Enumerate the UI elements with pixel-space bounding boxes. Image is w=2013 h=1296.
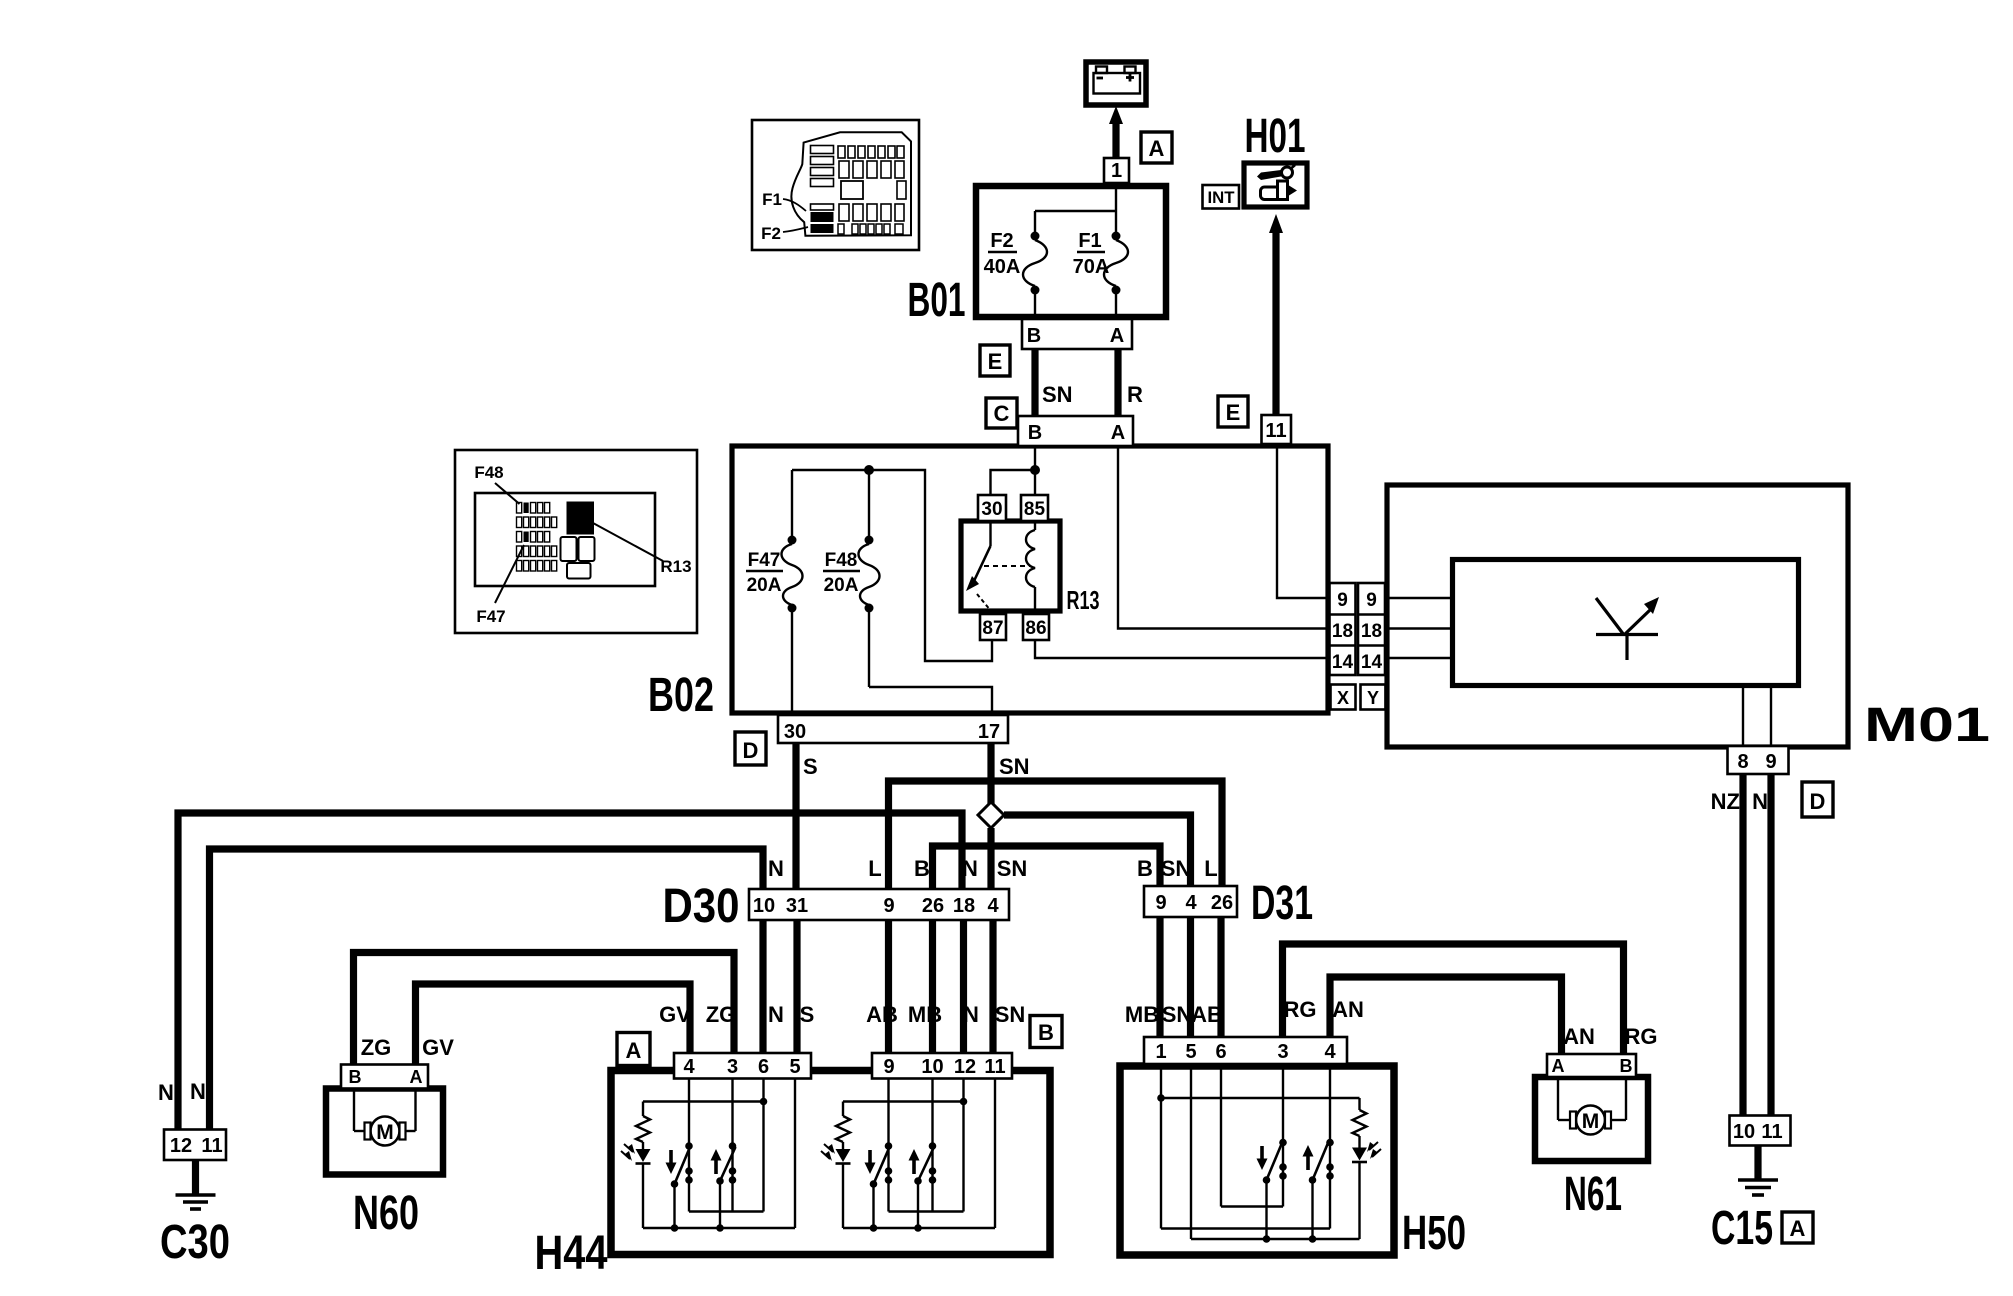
connector label E box left xyxy=(980,345,1010,376)
wire SN branch diamond to D31 pin 4 xyxy=(1004,815,1191,886)
svg-text:4: 4 xyxy=(1185,892,1197,914)
wire GV N60 A to H44 pin 4 xyxy=(416,984,691,1064)
connector label D box xyxy=(735,732,766,765)
H50 switch arm 2 with up arrow xyxy=(1303,1143,1329,1239)
svg-text:14: 14 xyxy=(1361,652,1383,673)
svg-text:F2: F2 xyxy=(990,230,1013,252)
connector strip H50 pins 1 5 6 3 4 xyxy=(1144,1037,1347,1064)
svg-text:C30: C30 xyxy=(160,1216,230,1269)
svg-text:GV: GV xyxy=(659,1002,691,1027)
wiper symbol xyxy=(1596,597,1659,660)
fusebox outline pictogram xyxy=(791,132,911,236)
svg-text:10: 10 xyxy=(753,895,775,917)
svg-text:SN: SN xyxy=(1042,382,1073,407)
connector label X box xyxy=(1331,685,1356,710)
wire SN D30 pin 4 to H44 pin 11 xyxy=(989,920,996,1053)
relay R13 black square xyxy=(567,502,595,535)
stalk switch unit H50 xyxy=(1120,1066,1394,1255)
H44 switch arm 1 with down arrow xyxy=(666,1147,691,1228)
wire MB D31 pin 9 to H50 pin 1 xyxy=(1156,917,1163,1037)
svg-text:10: 10 xyxy=(921,1056,943,1078)
H50 illumination LED xyxy=(1352,1142,1381,1239)
fusebox bottom fuse row xyxy=(839,204,904,221)
svg-text:AB: AB xyxy=(866,1002,898,1027)
svg-text:S: S xyxy=(803,754,818,779)
relay inset fuse grid xyxy=(517,503,557,572)
H50 pin 1 column xyxy=(1157,1064,1165,1229)
wiper motor assembly M01 xyxy=(1387,485,1848,747)
wire F48 to pin 17 xyxy=(869,687,992,715)
svg-text:B: B xyxy=(1038,1020,1054,1045)
connector label C box xyxy=(986,398,1017,428)
wire ZG N60 B to H44 pin 3 xyxy=(354,953,735,1065)
svg-text:S: S xyxy=(800,1002,815,1027)
svg-text:L: L xyxy=(1204,856,1217,881)
relay pin 85 box xyxy=(1021,495,1048,521)
svg-text:H44: H44 xyxy=(535,1227,608,1280)
wire relay 86 to strip 14 xyxy=(1035,640,1329,658)
svg-text:A: A xyxy=(626,1038,642,1063)
fusebox relay square xyxy=(841,181,863,199)
svg-text:GV: GV xyxy=(422,1035,454,1060)
H44 right illumination LED xyxy=(821,1144,851,1228)
svg-text:N: N xyxy=(190,1079,206,1104)
svg-text:N: N xyxy=(768,856,784,881)
wire pin B into B02 xyxy=(1034,446,1036,470)
relay inset white relays xyxy=(561,537,595,579)
wire pin A to strip 18 xyxy=(1118,446,1329,629)
wire MB D30 pin 26 to H44 pin 10 xyxy=(929,920,936,1053)
svg-text:E: E xyxy=(1226,400,1241,425)
connector C30 strip 12 11 xyxy=(164,1130,226,1161)
label F47 with leader xyxy=(476,545,524,626)
svg-text:40A: 40A xyxy=(984,256,1021,278)
svg-text:F47: F47 xyxy=(476,607,505,626)
battery A01 xyxy=(1086,62,1146,105)
wire S B02 pin 30 to D30 pin 31 xyxy=(792,743,799,889)
fusebox bars left column xyxy=(811,146,834,187)
svg-text:B: B xyxy=(1137,856,1153,881)
svg-text:18: 18 xyxy=(1332,621,1353,642)
ground wire C30 xyxy=(192,1160,199,1195)
H44 right bottom bus xyxy=(843,1224,995,1232)
connector strip 8 9 of M01 xyxy=(1728,746,1789,774)
svg-text:F47: F47 xyxy=(748,550,781,571)
F47 20A value label xyxy=(746,550,783,596)
fusebox bottom tiny row xyxy=(838,224,903,234)
F2 40A value label xyxy=(984,230,1021,278)
H44 left group top bus xyxy=(643,1100,764,1102)
connector strip 9 18 14 M01 side xyxy=(1358,583,1385,675)
ground symbol C30 xyxy=(176,1195,216,1209)
svg-text:9: 9 xyxy=(883,1056,894,1078)
svg-text:N61: N61 xyxy=(1564,1168,1622,1221)
wire H01 to connector E pin 11 with arrow xyxy=(1269,214,1283,415)
H44 right group top bus xyxy=(843,1100,964,1102)
fusebox B01 xyxy=(976,186,1166,317)
pin 1 connector A of B01 xyxy=(1104,158,1129,183)
connector C15 strip 10 11 xyxy=(1730,1116,1791,1146)
connector D strip 30 17 below B02 xyxy=(778,715,1008,743)
H44 pin 10 contact column xyxy=(929,1079,937,1212)
svg-text:M: M xyxy=(1582,1110,1600,1133)
svg-text:B: B xyxy=(1027,325,1041,347)
svg-text:Y: Y xyxy=(1367,688,1379,708)
svg-text:26: 26 xyxy=(1211,892,1233,914)
svg-text:10: 10 xyxy=(1733,1121,1755,1143)
svg-text:9: 9 xyxy=(1366,590,1377,611)
svg-text:9: 9 xyxy=(883,895,894,917)
wire S D30 pin 31 to H44 pin 5 xyxy=(793,920,800,1053)
connector label B box H44 xyxy=(1030,1016,1062,1048)
N60 motor symbol xyxy=(354,1089,416,1146)
svg-text:F2: F2 xyxy=(761,224,781,243)
connector label Y box xyxy=(1361,685,1386,710)
svg-text:1: 1 xyxy=(1155,1041,1166,1063)
connector strip H44 B pins 9 10 12 11 xyxy=(872,1053,1012,1079)
svg-text:F1: F1 xyxy=(1078,230,1101,252)
svg-text:F48: F48 xyxy=(474,463,503,482)
svg-text:4: 4 xyxy=(987,895,999,917)
wire R B01 to B02 xyxy=(1114,349,1121,416)
connector strip 9 18 14 B02 side xyxy=(1330,583,1356,675)
svg-text:18: 18 xyxy=(953,895,975,917)
svg-text:N: N xyxy=(158,1080,174,1105)
H50 top bus xyxy=(1161,1097,1360,1099)
wire N xyxy=(1767,774,1774,1115)
svg-text:11: 11 xyxy=(1265,420,1286,442)
svg-text:SN: SN xyxy=(997,856,1028,881)
relay pin 30 box xyxy=(978,495,1006,521)
H44 pin 6 column xyxy=(762,1079,764,1212)
svg-text:9: 9 xyxy=(1337,590,1348,611)
svg-text:30: 30 xyxy=(981,499,1002,520)
wiper motor N61 xyxy=(1535,1077,1648,1161)
M01 inner unit box xyxy=(1453,560,1799,686)
svg-text:SN: SN xyxy=(1161,856,1192,881)
fuse F1 70A xyxy=(1104,211,1128,319)
node pin B junction xyxy=(1030,465,1040,475)
wire NZ xyxy=(1739,774,1746,1115)
label F1 with leader xyxy=(762,190,806,211)
node F48 top junction xyxy=(864,465,874,475)
svg-text:L: L xyxy=(868,856,881,881)
relay coil xyxy=(1026,521,1035,614)
svg-text:H50: H50 xyxy=(1402,1207,1466,1260)
wire N D30 pin 18 to H44 pin 12 xyxy=(960,920,967,1053)
N61 motor symbol xyxy=(1558,1077,1626,1135)
svg-text:M01: M01 xyxy=(1864,699,1990,752)
pin 11 box connector E xyxy=(1262,415,1292,444)
svg-text:26: 26 xyxy=(922,895,944,917)
svg-text:SN: SN xyxy=(1162,1002,1193,1027)
H01 ignition switch icon xyxy=(1244,163,1307,207)
H50 pin 4 contact column xyxy=(1326,1064,1334,1229)
fusebox second fuse row xyxy=(839,161,904,178)
svg-text:SN: SN xyxy=(999,754,1030,779)
svg-text:N: N xyxy=(962,856,978,881)
H44 left illumination resistor xyxy=(636,1102,650,1150)
fuse F48 20A xyxy=(859,470,880,687)
H44 pin 5 column xyxy=(794,1079,796,1229)
F48 20A value label xyxy=(823,550,860,596)
svg-text:A: A xyxy=(410,1067,423,1087)
svg-text:4: 4 xyxy=(683,1056,695,1078)
H44 switch arm 4 with up arrow xyxy=(909,1147,935,1228)
fusebox right small rect xyxy=(897,181,906,199)
svg-text:N: N xyxy=(1752,789,1768,814)
splice diamond SN xyxy=(978,802,1004,828)
H44 pin 3 contact column xyxy=(729,1079,737,1212)
connector D30 xyxy=(749,889,1009,920)
wire battery positive with arrow xyxy=(1109,106,1123,158)
svg-text:R13: R13 xyxy=(1067,585,1100,615)
H44 pin 9 contact column xyxy=(885,1079,893,1212)
svg-text:12: 12 xyxy=(954,1056,976,1078)
svg-text:5: 5 xyxy=(1185,1041,1196,1063)
H44 pin 11 column xyxy=(994,1079,996,1229)
svg-text:NZ: NZ xyxy=(1711,789,1740,814)
H50 illumination resistor xyxy=(1353,1098,1367,1148)
ground symbol C15 xyxy=(1738,1180,1778,1195)
svg-text:B: B xyxy=(1620,1056,1633,1076)
svg-text:4: 4 xyxy=(1324,1041,1336,1063)
svg-text:9: 9 xyxy=(1765,751,1776,773)
label F48 with leader xyxy=(474,463,519,504)
relay R13 xyxy=(961,521,1060,611)
fuse F2 40A xyxy=(1023,211,1047,319)
wire AB D30 pin 9 to H44 pin 9 xyxy=(885,920,892,1053)
ground wire C15 xyxy=(1754,1146,1761,1181)
svg-text:D30: D30 xyxy=(663,880,740,933)
svg-text:20A: 20A xyxy=(824,575,859,596)
B01 internal bus xyxy=(1035,210,1116,212)
fuse F47 20A xyxy=(782,470,803,715)
connector label A box xyxy=(1141,132,1172,163)
svg-text:C15: C15 xyxy=(1711,1202,1773,1255)
fusebox F1 F2 fuse stack xyxy=(811,204,834,233)
svg-text:A: A xyxy=(1110,325,1124,347)
H44 left inner link xyxy=(689,1210,764,1212)
svg-text:M: M xyxy=(376,1121,394,1144)
svg-text:1: 1 xyxy=(1111,160,1122,182)
svg-text:5: 5 xyxy=(789,1056,800,1078)
svg-text:6: 6 xyxy=(1215,1041,1226,1063)
svg-text:A: A xyxy=(1149,136,1165,161)
wire B to relay 85 xyxy=(1034,470,1036,495)
svg-text:AB: AB xyxy=(1191,1002,1223,1027)
connector strip N60 B A xyxy=(341,1065,428,1089)
wire N C30 pin 11 to D30 pin 10 xyxy=(210,849,764,1130)
H44 switch arm 3 with down arrow xyxy=(865,1147,890,1228)
connector label A box H44 xyxy=(617,1033,650,1066)
svg-text:30: 30 xyxy=(784,721,806,743)
wire SN B02 pin 17 upper xyxy=(987,743,994,804)
svg-text:RG: RG xyxy=(1625,1024,1658,1049)
wire SN diamond to D30 pin 4 xyxy=(987,828,994,889)
fusebox location inset F1 F2 frame xyxy=(752,120,919,250)
svg-text:87: 87 xyxy=(982,618,1003,639)
wire pin 11 to strip 9 xyxy=(1277,444,1329,598)
svg-text:18: 18 xyxy=(1361,621,1382,642)
svg-text:SN: SN xyxy=(995,1002,1026,1027)
H44 right illumination resistor xyxy=(836,1102,850,1150)
svg-text:3: 3 xyxy=(727,1056,738,1078)
stalk switch unit H44 xyxy=(611,1071,1050,1255)
connector strip N61 A B xyxy=(1547,1054,1636,1077)
svg-text:11: 11 xyxy=(1761,1121,1782,1143)
fusebox top fuse row xyxy=(838,146,904,158)
svg-text:A: A xyxy=(1111,422,1125,444)
svg-text:F1: F1 xyxy=(762,190,782,209)
svg-text:R: R xyxy=(1127,382,1143,407)
svg-text:D31: D31 xyxy=(1251,877,1313,930)
H50 pin 5 column xyxy=(1190,1064,1192,1239)
H44 right inner link xyxy=(889,1210,964,1212)
svg-text:A: A xyxy=(1790,1216,1806,1241)
svg-text:31: 31 xyxy=(786,895,808,917)
connector label E box right xyxy=(1218,396,1248,427)
svg-text:F48: F48 xyxy=(825,550,858,571)
wires strip to M01 xyxy=(1385,598,1452,658)
svg-text:AN: AN xyxy=(1332,997,1364,1022)
B01 connector strip B A xyxy=(1022,319,1132,349)
H44 left bottom bus xyxy=(643,1224,795,1232)
wire L D30 pin 9 to D31 pin 26 xyxy=(889,781,1223,889)
svg-text:B: B xyxy=(914,856,930,881)
wire pin1 into B01 xyxy=(1115,183,1117,211)
wiper motor N60 xyxy=(326,1089,443,1175)
svg-text:20A: 20A xyxy=(747,575,782,596)
svg-text:D: D xyxy=(743,738,759,763)
wires inner box to pins 8 9 xyxy=(1743,686,1771,746)
svg-text:14: 14 xyxy=(1332,652,1354,673)
H50 lower link pin1 to pin4 column xyxy=(1161,1227,1330,1229)
H44 pin 4 contact column xyxy=(685,1079,693,1212)
svg-text:D: D xyxy=(1810,789,1826,814)
body computer B02 xyxy=(732,446,1328,713)
relay location inset frame F48 F47 R13 xyxy=(455,450,697,633)
svg-text:9: 9 xyxy=(1155,892,1166,914)
relay switch arm with arrow xyxy=(966,521,1031,611)
H44 left illumination LED xyxy=(621,1144,651,1228)
svg-text:6: 6 xyxy=(758,1056,769,1078)
svg-text:85: 85 xyxy=(1024,499,1046,520)
H50 pin 3 contact column xyxy=(1279,1064,1287,1207)
INT box xyxy=(1203,185,1240,209)
connector label D box right xyxy=(1802,782,1833,817)
svg-text:H01: H01 xyxy=(1245,110,1306,163)
wire SN D31 pin 4 to H50 pin 5 xyxy=(1187,917,1194,1037)
wire SN B01 to B02 xyxy=(1031,349,1038,416)
connector C strip B A of B02 xyxy=(1018,416,1133,446)
label F2 with leader xyxy=(761,224,808,243)
svg-text:B01: B01 xyxy=(908,274,966,327)
connector label A box bottom right xyxy=(1782,1212,1813,1243)
relay pin 86 box xyxy=(1023,614,1049,640)
wire AN H50 pin 4 to N61 pin A xyxy=(1330,977,1562,1054)
wire B to relay 30 xyxy=(991,470,1036,495)
svg-text:N60: N60 xyxy=(353,1187,419,1240)
svg-text:B02: B02 xyxy=(648,669,714,722)
svg-text:B: B xyxy=(349,1067,362,1087)
wire RG H50 pin 3 to N61 pin B xyxy=(1283,944,1624,1054)
svg-text:X: X xyxy=(1337,688,1349,708)
svg-text:N: N xyxy=(963,1002,979,1027)
wire AB D31 pin 26 to H50 pin 6 xyxy=(1217,917,1224,1037)
H50 inner link xyxy=(1221,1205,1283,1207)
svg-text:8: 8 xyxy=(1737,751,1748,773)
connector strip H44 A pins 4 3 6 5 xyxy=(674,1053,811,1079)
wire fuse feed bus from relay 87 xyxy=(792,470,992,661)
svg-text:ZG: ZG xyxy=(706,1002,737,1027)
wire N D30 pin 10 to H44 pin 6 xyxy=(759,920,766,1053)
svg-text:MB: MB xyxy=(908,1002,942,1027)
svg-text:A: A xyxy=(1552,1056,1565,1076)
svg-text:B: B xyxy=(1028,422,1042,444)
svg-text:INT: INT xyxy=(1208,188,1236,207)
svg-text:3: 3 xyxy=(1277,1041,1288,1063)
svg-text:E: E xyxy=(988,349,1003,374)
wire B D30 pin 26 to D31 pin 9 xyxy=(933,846,1161,889)
relay inset inner box xyxy=(475,493,655,586)
label R13 with leader xyxy=(593,523,692,576)
H50 switch arm 1 with down arrow xyxy=(1257,1143,1283,1239)
relay pin 87 box xyxy=(980,614,1006,640)
svg-text:C: C xyxy=(994,401,1010,426)
wire N C30 pin 12 to D30 pin 18 xyxy=(178,813,962,1130)
H44 switch arm 2 with up arrow xyxy=(711,1147,736,1228)
svg-text:N: N xyxy=(768,1002,784,1027)
svg-text:R13: R13 xyxy=(660,557,691,576)
H44 pin 12 column xyxy=(962,1079,964,1212)
svg-text:11: 11 xyxy=(201,1135,222,1157)
H50 bottom bus xyxy=(1191,1235,1360,1243)
svg-text:ZG: ZG xyxy=(361,1035,392,1060)
svg-text:RG: RG xyxy=(1284,997,1317,1022)
svg-text:11: 11 xyxy=(984,1056,1005,1078)
svg-text:86: 86 xyxy=(1025,618,1046,639)
connector D31 xyxy=(1144,886,1237,917)
svg-text:70A: 70A xyxy=(1073,256,1110,278)
svg-text:AN: AN xyxy=(1563,1024,1595,1049)
svg-text:17: 17 xyxy=(978,721,1000,743)
F1 70A value label xyxy=(1073,230,1110,278)
H50 pin 6 column xyxy=(1220,1064,1222,1207)
svg-text:12: 12 xyxy=(170,1135,192,1157)
svg-text:MB: MB xyxy=(1125,1002,1159,1027)
